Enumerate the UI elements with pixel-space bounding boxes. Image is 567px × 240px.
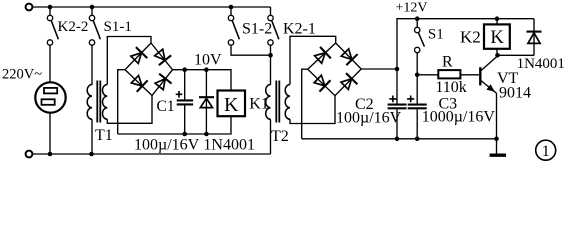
switch S1-1: [89, 7, 100, 45]
node junction C3 bottom: [415, 137, 420, 142]
svg-text:T2: T2: [271, 128, 289, 145]
svg-text:S1-2: S1-2: [242, 20, 272, 37]
node junction emitter/ground rail: [494, 137, 499, 142]
wire T1 primary bottom: [91, 119, 93, 154]
wire T1 secondary bottom to bridge1: [107, 96, 152, 124]
svg-text:100µ/16V: 100µ/16V: [336, 110, 402, 127]
bridge rectifier 2: [308, 43, 362, 96]
wire T2 primary bottom: [270, 119, 272, 154]
wire DC plus rail 2: [361, 68, 397, 70]
wire T2 secondary top to bridge2: [290, 36, 336, 84]
wire S1-1 to T1 primary: [91, 45, 93, 85]
wire collector to diode D2: [498, 54, 535, 56]
node junction C1 top: [182, 67, 187, 72]
ground: [490, 153, 506, 156]
switch S1-2: [228, 7, 239, 45]
switch K2-2: [47, 7, 58, 45]
svg-text:K: K: [224, 94, 239, 116]
wire K2-2 to socket: [49, 45, 51, 82]
svg-text:1000µ/16V: 1000µ/16V: [422, 108, 496, 125]
relay coil K2: [484, 19, 510, 49]
transformer T2: [266, 81, 290, 123]
switch S1: [415, 19, 425, 53]
wire T2 secondary bottom to bridge2: [290, 96, 335, 124]
wire ground rail stage2: [302, 138, 497, 140]
node junction D1 top: [204, 67, 209, 72]
transformer T1: [87, 81, 107, 123]
wire K2 bottom lead: [496, 49, 498, 56]
wire socket to bottom rail: [49, 113, 51, 154]
socket XS (220V outlet): [35, 82, 65, 112]
bridge rectifier 1: [125, 43, 173, 96]
wire T1 secondary top to bridge1: [107, 37, 151, 85]
resistor R: [417, 70, 479, 78]
wire bridge1 minus stub: [118, 70, 125, 134]
node junction +12V riser: [395, 67, 400, 72]
wire K2-1 to T2 primary: [270, 45, 272, 85]
figure number 1: [536, 140, 556, 160]
svg-text:1N4001: 1N4001: [517, 56, 565, 72]
svg-text:T1: T1: [95, 127, 113, 144]
terminal top-left: [26, 4, 33, 11]
svg-text:R: R: [442, 53, 453, 70]
capacitor C1: [176, 70, 193, 134]
svg-text:K: K: [490, 28, 504, 48]
svg-text:110k: 110k: [435, 79, 466, 96]
node junction top rail at S1-1: [90, 5, 95, 10]
svg-text:K2-2: K2-2: [58, 19, 89, 35]
wire DC minus rail 1: [118, 116, 231, 134]
transistor VT 9014: [480, 56, 497, 93]
wire emitter to ground: [496, 93, 498, 154]
svg-text:+12V: +12V: [396, 0, 428, 15]
node junction top rail at K2-2: [48, 5, 53, 10]
capacitor C3: [407, 75, 427, 139]
node junction S1 top: [415, 16, 420, 21]
svg-text:10V: 10V: [194, 52, 222, 69]
node junction C1 bottom: [182, 132, 187, 137]
svg-text:K2: K2: [460, 28, 481, 47]
wire top rail: [33, 6, 271, 8]
wire bottom rail: [33, 153, 271, 155]
svg-text:1: 1: [542, 143, 550, 160]
wire S1-2 bottom link: [231, 45, 271, 55]
terminal bottom-left: [26, 151, 33, 158]
diode D1 (1N4001): [199, 70, 214, 134]
node junction C2 bottom: [395, 137, 400, 142]
svg-text:S1-1: S1-1: [104, 19, 132, 35]
node junction K2-1/S1-2: [268, 53, 273, 58]
switch K2-1: [268, 7, 279, 45]
wire DC plus rail 1: [173, 70, 232, 91]
wire S1 to junction: [416, 53, 418, 75]
svg-text:100µ/16V: 100µ/16V: [134, 137, 200, 154]
wire +12V riser and top feed: [397, 19, 534, 69]
node junction S1/R/C3: [415, 73, 420, 78]
node junction D1 bottom: [204, 132, 209, 137]
diode D2 (1N4001 flyback): [527, 19, 542, 56]
relay coil K1: [218, 91, 246, 117]
svg-text:K2-1: K2-1: [283, 20, 316, 37]
node junction K2 top: [495, 16, 500, 21]
node junction bottom rail at socket: [48, 152, 53, 157]
capacitor C2: [388, 69, 407, 139]
svg-text:9014: 9014: [499, 85, 531, 102]
svg-text:220V~: 220V~: [2, 66, 42, 82]
svg-text:1N4001: 1N4001: [203, 137, 255, 154]
node junction top rail at S1-2: [229, 5, 234, 10]
svg-text:S1: S1: [428, 27, 444, 43]
node junction bottom rail at T1: [89, 152, 94, 157]
node junction collector: [495, 53, 500, 58]
wire bridge2 minus stub: [302, 69, 308, 139]
svg-text:C1: C1: [157, 98, 175, 115]
